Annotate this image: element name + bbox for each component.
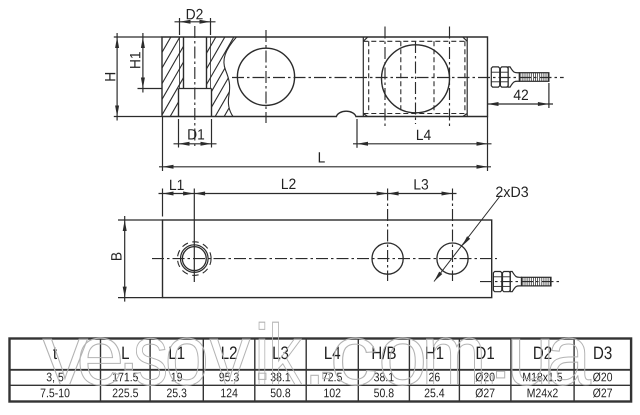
watermark vesovik.com.ua (43, 322, 591, 385)
hole centerline (194, 26, 196, 148)
block corner chamfers (363, 37, 367, 41)
cable gland stud (elevation) (491, 67, 549, 87)
hole centerline 2 (449, 27, 451, 128)
threaded hole D2 walls (183, 37, 185, 89)
block hidden top line (363, 40, 467, 42)
hole centerline 1 (384, 27, 386, 128)
big circle (382, 45, 450, 113)
hole 3 (plan) (437, 243, 468, 274)
dimension B (118, 219, 163, 221)
dimension L1 L2 L3 (162, 189, 164, 217)
dimension L4 (356, 119, 358, 148)
plan horizontal centerline (152, 258, 497, 260)
left circle centerline vertical (265, 30, 267, 123)
big circle centerline (415, 41, 417, 124)
small square marks row1 (259, 373, 266, 379)
hidden hole lines (368, 41, 370, 113)
sensing block right edge (466, 37, 468, 117)
dimension D1 (178, 119, 180, 148)
sensing block left edge (362, 37, 364, 117)
dimension H1 (138, 88, 163, 90)
hole 2 (plan) (372, 243, 403, 274)
cable gland stud (plan) (493, 272, 551, 292)
left hole circle (237, 48, 294, 105)
plan outline (163, 220, 492, 298)
table row 2 text (41, 388, 612, 397)
counterbore shoulder (179, 88, 212, 90)
dimension H (114, 36, 162, 38)
table row 1 text (47, 372, 612, 383)
threaded hole (plan) (182, 247, 206, 271)
table header text (53, 346, 611, 359)
plan stud centerline (480, 281, 559, 283)
table grid (10, 339, 632, 402)
bore D1 walls (178, 89, 180, 117)
dimension 42 (548, 83, 550, 108)
thread hole centerline (193, 189, 195, 283)
thread major dia thin lines (179, 37, 181, 89)
watermark raised square mark (125, 363, 132, 370)
dimension D2 (179, 18, 181, 35)
dimension L (162, 117, 164, 172)
block hidden bottom line (363, 113, 467, 115)
beam outline (elevation) (162, 37, 488, 117)
label 2xD3 with leader (496, 187, 528, 198)
horizontal centerline (232, 77, 564, 79)
break line (wavy) (224, 37, 237, 117)
